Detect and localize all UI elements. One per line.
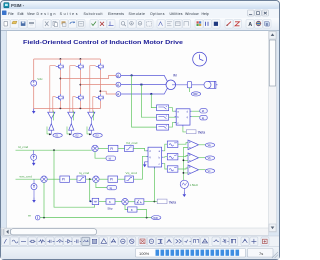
wire Vq_cmd to dq block — [134, 156, 149, 179]
svg-text:Window: Window — [185, 12, 199, 16]
node Iq_cmd junction — [89, 178, 91, 180]
wire wm source to ground — [33, 190, 35, 198]
svg-text:theta: theta — [198, 131, 205, 135]
wire ia to filter1 — [151, 94, 156, 108]
wire A1 to motor — [121, 75, 168, 81]
wire gate Q2 — [70, 66, 76, 113]
wire speed summer to PI — [47, 178, 60, 180]
wire gate Q6 — [93, 97, 96, 113]
element toolbar — [1, 236, 279, 247]
gate column 2: node — [70, 130, 72, 134]
gate column 2: label oval G2 — [73, 133, 82, 137]
svg-text:Subcircuit: Subcircuit — [84, 12, 103, 16]
wire shaft — [172, 84, 204, 86]
gate column 3: label oval G3 — [93, 133, 102, 137]
node label WR oval (sensor) — [191, 92, 200, 96]
wire comparator a output — [199, 144, 206, 146]
link box theta (upper) — [186, 130, 196, 134]
wire summer to integrator — [128, 201, 135, 203]
gate column 1: wire comparator to controller — [50, 119, 52, 124]
filter block 2 — [157, 114, 169, 120]
wire slip gain to summer — [115, 201, 122, 203]
wire ib to filter2 — [141, 85, 156, 118]
node phase C tap — [100, 90, 102, 92]
limiter speed — [77, 176, 86, 182]
wire bottom dc rail — [34, 107, 101, 109]
transformation block dq to abc — [146, 147, 163, 168]
ammeter A2 — [116, 82, 121, 87]
status bar — [1, 247, 279, 260]
vertical scrollbar — [269, 31, 277, 232]
ground below carrier — [183, 192, 187, 197]
node wr to speed summer — [43, 217, 45, 219]
node Id_cmd junction — [53, 149, 55, 151]
gate column 3: wire comparator to controller — [90, 119, 92, 124]
mdi window buttons — [248, 10, 269, 16]
label box Id feedback — [106, 156, 116, 160]
wire A3 to motor — [121, 88, 168, 94]
wire phase C — [100, 91, 116, 94]
gain block K2 — [128, 207, 137, 212]
menu bar — [1, 9, 279, 18]
gate column 2: on-off controller — [69, 124, 74, 131]
node phase A tap — [60, 78, 62, 80]
svg-text:PSIM -: PSIM - — [11, 3, 25, 8]
wire comparator c output — [199, 169, 206, 171]
wire gate Q3 — [90, 66, 96, 113]
wire summer to PI d-axis — [98, 147, 108, 149]
speed sensor W — [187, 82, 191, 88]
wire sin a to comparator — [178, 143, 188, 145]
transformation block abc to dq — [175, 109, 192, 127]
node bottom rail junctions — [60, 108, 62, 110]
wire wr feedback up — [43, 182, 45, 217]
svg-text:Id_cmd: Id_cmd — [18, 145, 28, 149]
svg-text:K: K — [109, 200, 111, 204]
node divider input — [89, 200, 91, 202]
svg-text:Field-Oriented Control of Indu: Field-Oriented Control of Induction Moto… — [23, 40, 183, 46]
wire gate Q1 — [50, 66, 56, 113]
dc source Vdc — [31, 80, 37, 86]
limiter d-axis — [125, 145, 134, 151]
transistor Q3 — [96, 63, 104, 70]
mechanical load — [204, 81, 218, 88]
svg-text:7s: 7s — [259, 251, 263, 256]
svg-text:View: View — [27, 12, 35, 16]
clock element — [193, 52, 207, 66]
wire d output to Id box — [192, 110, 200, 112]
wire phase A — [60, 75, 116, 78]
svg-text:Simulate: Simulate — [129, 12, 146, 16]
filter block 1 — [157, 105, 169, 111]
PI controller q-axis — [108, 176, 118, 182]
gate column 2: comparator — [68, 112, 75, 118]
filter block 3 — [157, 124, 169, 130]
transistor Q4 — [56, 94, 64, 101]
transistor Q1 — [56, 63, 64, 70]
svg-text:Elements: Elements — [108, 12, 124, 16]
wire sin b to comparator — [178, 156, 188, 157]
gate column 3: green input wires — [87, 111, 94, 134]
link box theta (lower) — [157, 199, 167, 204]
transistor Q2 — [76, 63, 84, 70]
wire Id_cmd rail — [16, 149, 92, 151]
wire q output to Iq box — [192, 116, 200, 118]
wire q summer to PI — [99, 178, 108, 180]
node theta junction — [154, 201, 156, 203]
node ia sense — [131, 74, 133, 76]
wire Iq_cmd down to divider — [90, 179, 93, 201]
wire PI to limiter d-axis — [118, 147, 125, 149]
node phase B tap — [80, 84, 82, 86]
gate column 1: label oval G1 — [53, 133, 62, 137]
svg-text:Slip: Slip — [107, 207, 112, 211]
wire Iq feedback — [96, 182, 107, 187]
summing junction slip — [122, 199, 128, 205]
sensor node wr — [35, 215, 40, 220]
gate column 1: node — [50, 130, 52, 134]
wire dq block ground pin — [145, 161, 148, 163]
wire filter2 to abc block — [169, 116, 177, 118]
node top rail junctions — [60, 58, 62, 60]
canvas — [7, 31, 269, 228]
induction machine IM — [166, 80, 176, 90]
wire phase B — [80, 84, 116, 86]
svg-text:Help: Help — [202, 12, 209, 16]
svg-text:Vq_cmd: Vq_cmd — [126, 171, 138, 175]
integrator block — [135, 199, 144, 204]
slip gain block — [106, 199, 115, 204]
wire wr rail — [40, 217, 152, 219]
svg-text:B: B — [266, 22, 269, 27]
node wr to K2 — [146, 217, 148, 219]
gate column 1: on-off controller — [49, 124, 54, 131]
wire integrator to theta link — [144, 201, 157, 203]
pwm comparator c — [188, 165, 199, 175]
wire filter1 to abc block — [169, 108, 177, 112]
node ib sense — [140, 84, 142, 86]
label box Iq feedback — [107, 185, 117, 189]
sin block a — [167, 141, 178, 147]
pwm comparator b — [188, 153, 199, 163]
svg-text:Vdc: Vdc — [37, 77, 43, 81]
wire K2 to summer — [125, 205, 128, 210]
sin block b — [167, 154, 178, 160]
wire top dc rail — [34, 58, 101, 60]
wire Id feedback — [95, 152, 106, 159]
ground at dq block — [143, 162, 147, 167]
svg-text:Utilities: Utilities — [170, 12, 183, 16]
wire gate Q5 — [73, 97, 76, 113]
label oval Vc — [205, 169, 214, 173]
label box Iq measured — [200, 116, 207, 120]
wire carrier to ground — [183, 188, 185, 191]
gate column 2: wire comparator to controller — [70, 119, 72, 124]
wire leg3 — [99, 59, 101, 108]
ammeter A3 — [116, 92, 121, 97]
svg-text:wr: wr — [28, 213, 31, 217]
summing junction Vd — [92, 145, 98, 151]
wire PI to limiter q-axis — [118, 178, 125, 180]
label box Id measured — [200, 109, 207, 113]
carrier triangle source — [180, 180, 188, 188]
wire PI to limiter speed — [70, 178, 78, 180]
PI controller speed — [60, 176, 70, 182]
wire abc block theta pin — [183, 127, 186, 132]
limiter q-axis — [125, 176, 134, 182]
wire leg1 — [59, 59, 61, 108]
svg-text:Vd_cmd: Vd_cmd — [126, 141, 138, 145]
wire divider to slip gain — [99, 201, 106, 203]
horizontal scrollbar — [1, 228, 269, 236]
source wm_cmd step — [31, 184, 37, 190]
svg-text:File: File — [8, 12, 14, 16]
label oval Vb — [205, 156, 214, 160]
wire A2 to motor — [121, 84, 166, 86]
wire carrier distribution — [183, 148, 188, 181]
wire a to sin block — [163, 144, 167, 151]
wire ic to filter3 — [132, 75, 157, 127]
wire source to rail — [33, 150, 35, 154]
wire sin c to comparator — [178, 168, 188, 169]
title bar — [1, 1, 279, 9]
svg-text:WR: WR — [153, 216, 157, 220]
wire dc left rail — [33, 59, 35, 108]
wire wm_cmd rail — [16, 178, 41, 180]
sin block c — [167, 166, 178, 172]
ground below wm_cmd source — [32, 197, 36, 202]
toolbar — [1, 18, 279, 31]
wire Iq_cmd — [86, 178, 93, 180]
ground below Id_cmd source — [32, 160, 36, 165]
svg-text:K: K — [131, 208, 133, 212]
wire comparator b output — [199, 157, 206, 159]
node carrier branch b — [183, 159, 185, 161]
svg-text:theta: theta — [169, 200, 176, 204]
transistor Q5 — [76, 94, 84, 101]
wire c to sin block — [163, 164, 167, 169]
svg-text:WR: WR — [193, 92, 197, 96]
summing junction q-axis — [93, 176, 99, 182]
pwm comparator a — [188, 140, 199, 150]
label oval Va — [205, 143, 214, 147]
wire b to sin block — [163, 156, 167, 159]
source Id_cmd step — [31, 154, 37, 160]
wire Vd_cmd to dq block — [133, 148, 148, 150]
gate column 1: comparator — [48, 112, 55, 118]
svg-text:100%: 100% — [139, 251, 150, 256]
node carrier branch c — [183, 172, 185, 174]
wire leg2 — [79, 59, 81, 108]
wire theta up to dq block — [153, 167, 155, 201]
divider block — [92, 198, 99, 204]
ammeter A1 — [116, 73, 121, 78]
label oval WR (rail) — [152, 216, 161, 220]
svg-text:IM: IM — [173, 73, 177, 77]
gate column 3: node — [90, 130, 92, 134]
PI controller d-axis — [108, 145, 118, 151]
node ic sense — [150, 93, 152, 95]
wire sensor output — [189, 88, 191, 92]
wire wr to K2 — [137, 210, 147, 218]
transistor Q6 — [96, 94, 104, 101]
wire wm source to rail — [33, 179, 35, 183]
svg-text:A: A — [248, 22, 252, 28]
gate column 2: green input wires — [67, 111, 74, 134]
gate column 1: green input wires — [47, 111, 54, 134]
wire filter3 to abc block — [169, 122, 177, 127]
ground below source — [32, 108, 36, 113]
svg-text:Options: Options — [150, 12, 165, 16]
summing junction speed — [41, 176, 47, 182]
svg-text:Edit: Edit — [18, 12, 24, 16]
gate column 3: comparator — [88, 112, 95, 118]
svg-text:1.5kHz: 1.5kHz — [190, 183, 199, 187]
wire Id_cmd down to divider — [54, 150, 95, 207]
wire gate Q4 — [53, 97, 56, 113]
svg-text:wm_cmd: wm_cmd — [20, 174, 33, 178]
gate column 3: on-off controller — [89, 124, 94, 131]
svg-text:Iq_cmd: Iq_cmd — [79, 171, 89, 175]
